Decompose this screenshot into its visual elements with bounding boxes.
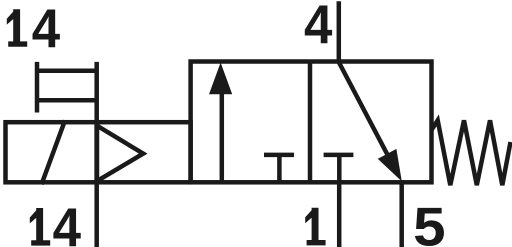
svg-text:4: 4 [53, 196, 82, 247]
svg-text:4: 4 [32, 0, 61, 59]
svg-text:4: 4 [304, 0, 333, 55]
svg-text:5: 5 [413, 196, 446, 247]
